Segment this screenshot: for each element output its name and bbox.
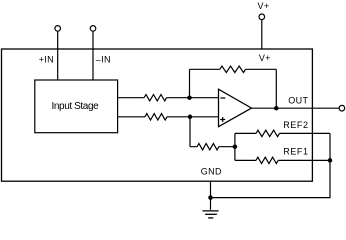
wire REF1 row [235, 159, 330, 161]
resistor R6 (REF1) [256, 157, 278, 163]
wire gain resistor row [190, 146, 235, 148]
wire +IN lead [57, 31, 59, 80]
wire lower input (Input Stage to op-amp non-inverting input) [118, 116, 219, 118]
op-amp plus marker [220, 117, 225, 122]
terminal OUT [339, 105, 345, 111]
resistor R4 (gain set) [197, 144, 219, 150]
node (non-inverting input junction) [188, 115, 193, 120]
wire REF2 row [235, 132, 330, 134]
op-amp minus marker [220, 97, 225, 99]
node (REF1 tie) [328, 158, 333, 163]
svg-text:OUT: OUT [288, 96, 308, 106]
wire V+ lead [261, 20, 263, 49]
wire -IN lead [92, 31, 94, 80]
wire feedback top [190, 68, 277, 70]
node (ground rail junction) [208, 195, 213, 200]
wire REF bus [234, 133, 236, 160]
wire GND stem [210, 181, 212, 210]
node (REF bus junction) [233, 144, 238, 149]
svg-text:–IN: –IN [96, 55, 111, 65]
op-amp A1 [219, 89, 252, 127]
wire feedback drop [275, 69, 277, 108]
svg-text:V+: V+ [258, 1, 270, 11]
wire REF right bus to ground rail [211, 133, 331, 197]
terminal -IN [90, 26, 96, 32]
svg-text:REF2: REF2 [283, 120, 308, 130]
wire upper input (Input Stage to op-amp inverting input) [118, 97, 219, 99]
svg-text:+IN: +IN [39, 55, 54, 65]
svg-text:Input Stage: Input Stage [52, 101, 100, 112]
Input Stage block [35, 80, 118, 133]
ground symbol [203, 211, 219, 218]
svg-text:V+: V+ [259, 53, 271, 63]
svg-text:REF1: REF1 [283, 146, 308, 156]
resistor R5 (REF2) [256, 130, 280, 136]
wire feedback riser [189, 69, 191, 97]
resistor R2 (feedback) [220, 66, 246, 72]
IC outer box [2, 49, 313, 181]
wire drop to gain resistor [189, 117, 191, 147]
resistor R1 (upper input) [144, 95, 167, 101]
node (feedback junction) [187, 95, 192, 100]
resistor R3 (lower input) [145, 114, 167, 120]
terminal V+ [259, 14, 265, 20]
wire output [252, 107, 340, 109]
terminal +IN [55, 26, 61, 32]
node (output junction) [274, 106, 279, 111]
svg-text:GND: GND [201, 167, 222, 177]
